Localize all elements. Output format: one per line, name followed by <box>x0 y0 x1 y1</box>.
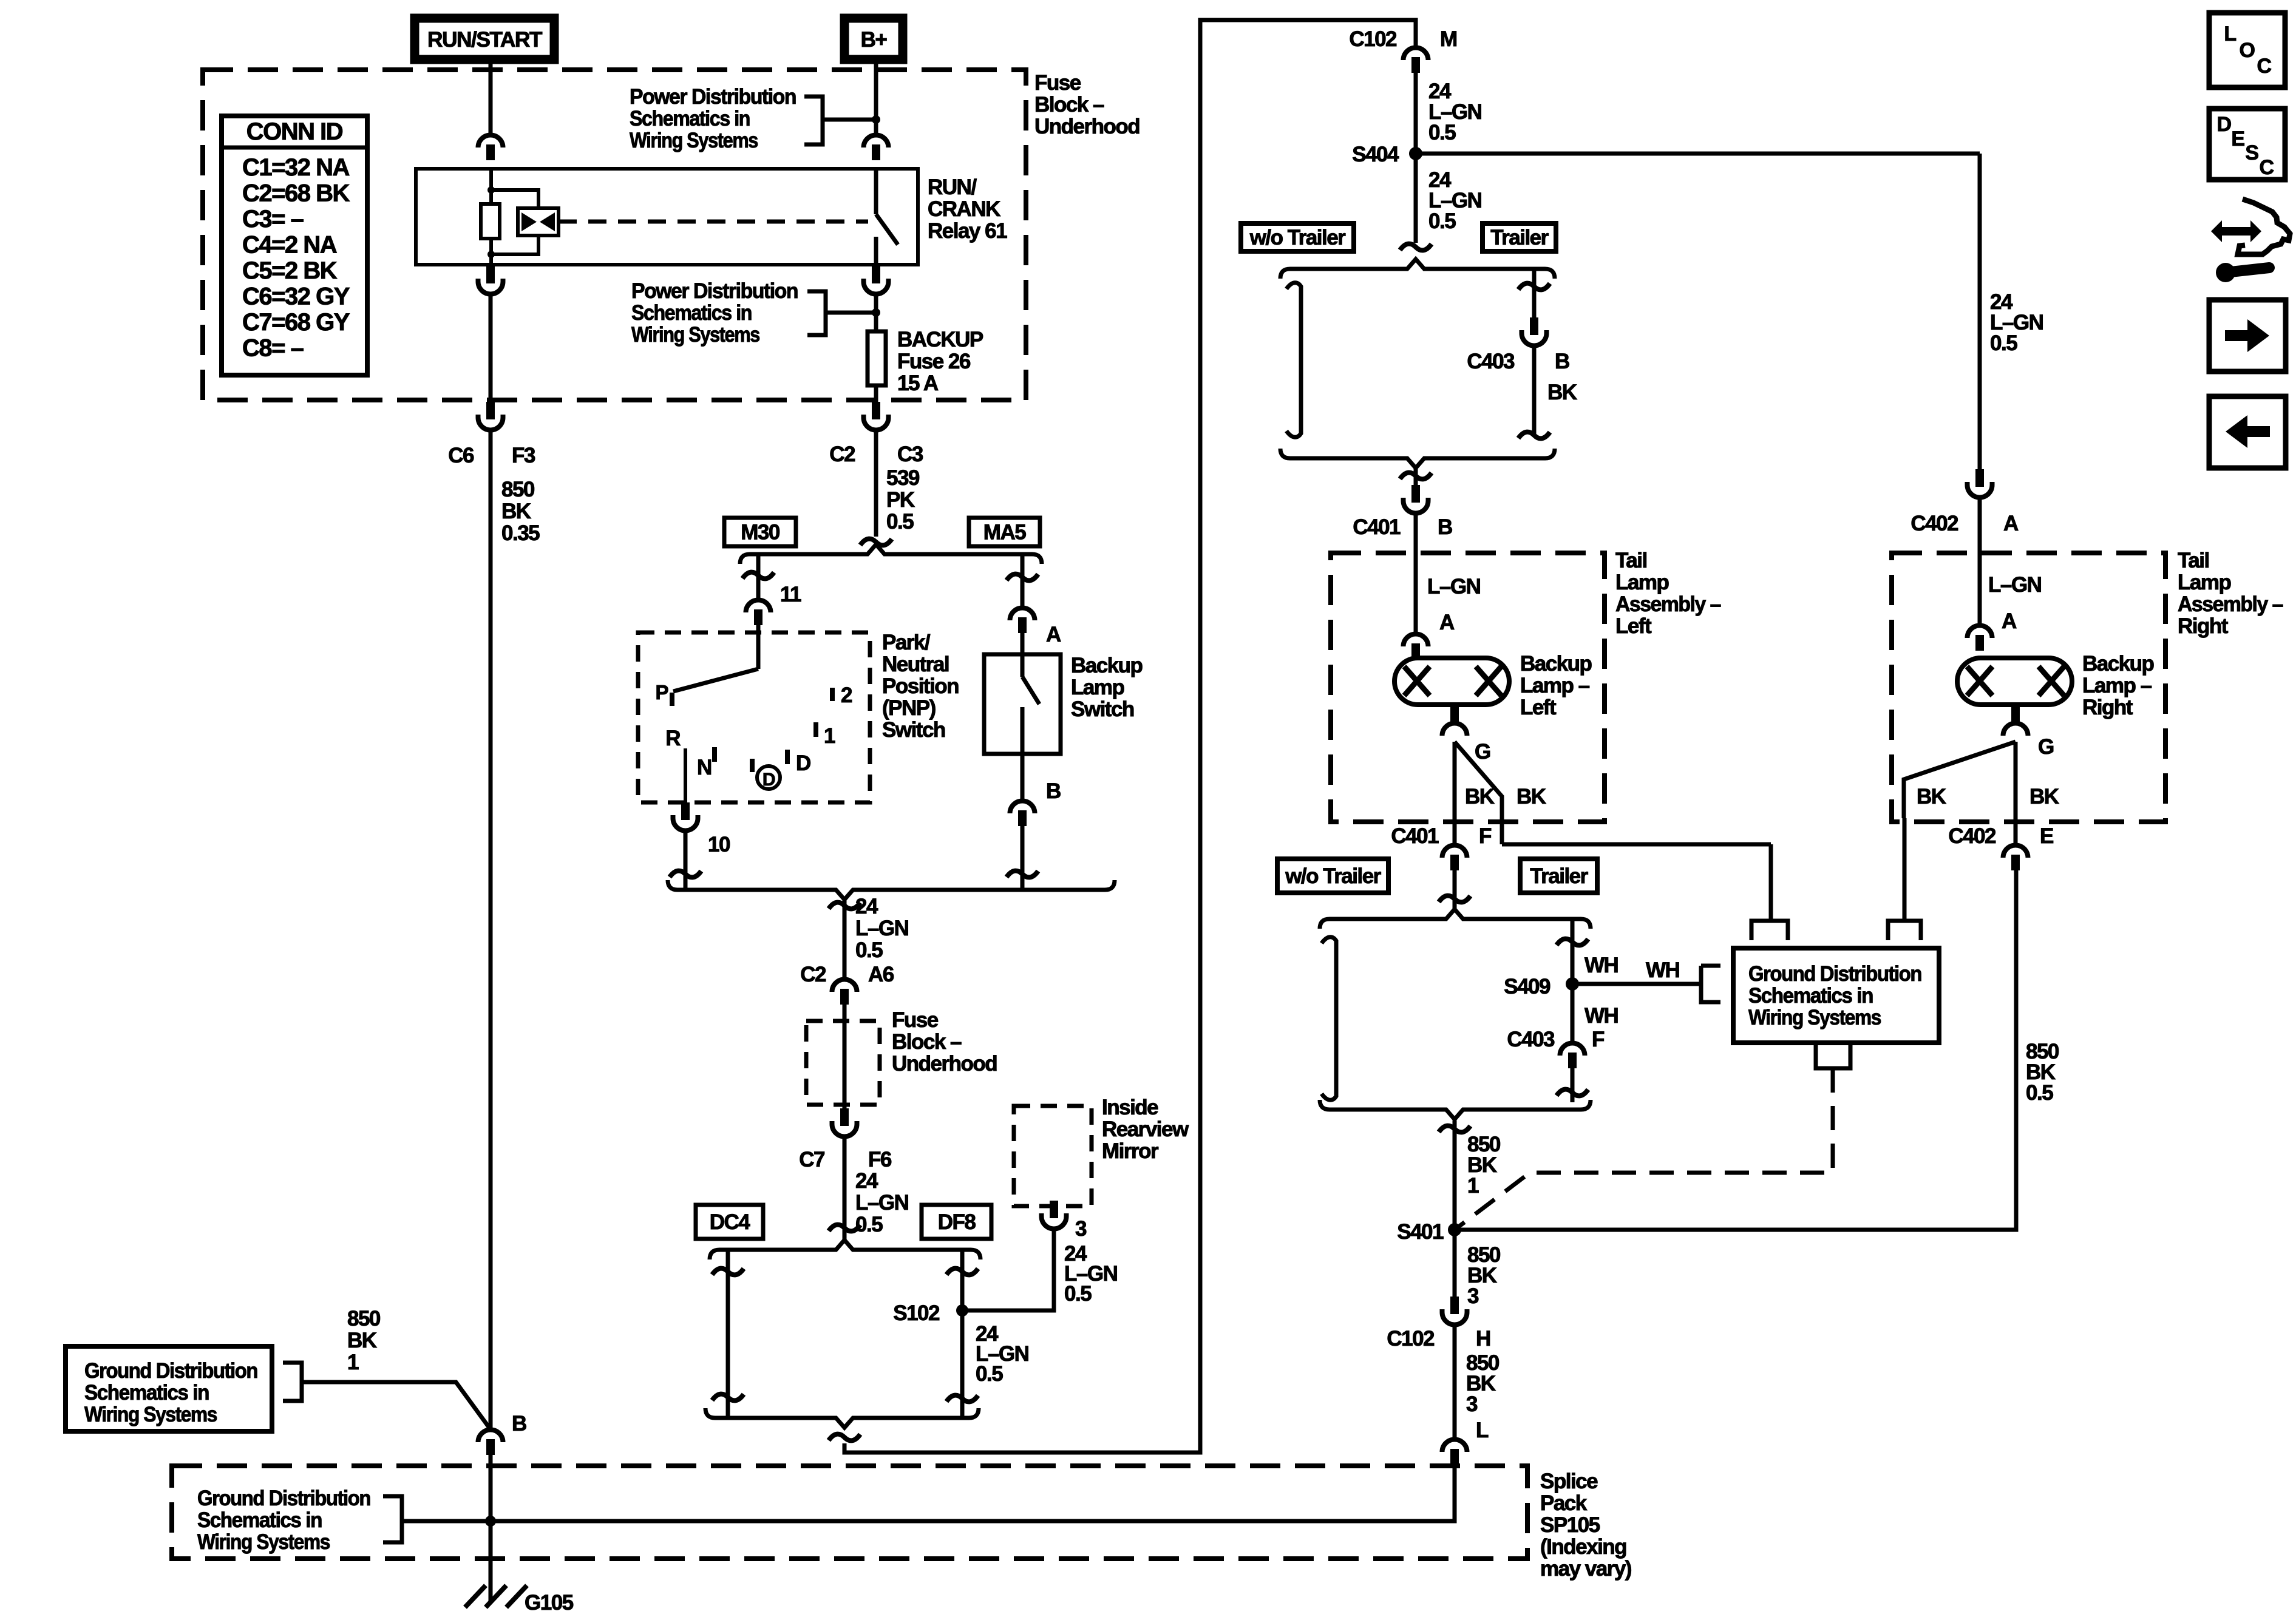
svg-text:Relay 61: Relay 61 <box>928 219 1007 243</box>
svg-text:B+: B+ <box>861 28 888 52</box>
relay coil element <box>481 204 500 239</box>
svg-text:L–GN: L–GN <box>1988 573 2041 597</box>
svg-text:C2: C2 <box>800 963 826 986</box>
svg-text:0.5: 0.5 <box>976 1362 1003 1386</box>
svg-text:C3= –: C3= – <box>242 206 304 232</box>
svg-text:0.35: 0.35 <box>501 521 540 545</box>
svg-text:Tail: Tail <box>2178 549 2209 572</box>
svg-text:Fuse: Fuse <box>892 1008 939 1032</box>
wire right lamp BK to ground box <box>1903 818 1907 921</box>
svg-text:w/o Trailer: w/o Trailer <box>1249 226 1346 249</box>
svg-text:N: N <box>697 756 712 779</box>
svg-text:C402: C402 <box>1948 824 1996 848</box>
svg-text:L–GN: L–GN <box>855 917 908 940</box>
svg-text:C2=68 BK: C2=68 BK <box>242 180 350 207</box>
svg-text:Splice: Splice <box>1540 1470 1598 1493</box>
connector pin 3 inside rearview mirror <box>1050 1201 1058 1218</box>
svg-text:A6: A6 <box>868 963 894 986</box>
backup lamp left bulb <box>1394 658 1509 705</box>
svg-text:Left: Left <box>1615 614 1652 638</box>
wire break below merge <box>829 1434 860 1441</box>
wire callout to B+ rail <box>823 118 876 122</box>
branch MA5 to backup lamp switch <box>1021 554 1025 607</box>
wire S404 to right lamp feed <box>1416 152 1980 156</box>
wire BK diagonal right lamp <box>1904 742 2016 818</box>
svg-text:L: L <box>2224 22 2236 46</box>
svg-text:G105: G105 <box>525 1591 574 1615</box>
svg-text:C4=2 NA: C4=2 NA <box>242 232 337 259</box>
svg-text:S102: S102 <box>893 1301 940 1325</box>
svg-text:may vary): may vary) <box>1540 1557 1631 1581</box>
relay switch contacts <box>874 169 878 214</box>
splice S409 <box>1566 977 1579 991</box>
contact D drive <box>750 759 755 772</box>
connector into fuse block (RUN/START side) <box>478 135 503 147</box>
svg-text:Inside: Inside <box>1102 1096 1158 1119</box>
svg-text:Ground Distribution: Ground Distribution <box>197 1486 370 1510</box>
fork into ground distribution box <box>1701 966 1720 1002</box>
options merge brace trailer lower <box>1320 1100 1591 1119</box>
svg-text:11: 11 <box>780 583 801 606</box>
Backup Lamp Switch box <box>984 654 1061 754</box>
contact 2 <box>830 688 835 701</box>
relay control dashed link <box>559 220 868 224</box>
callout bracket (lower) <box>807 291 826 335</box>
backup lamp right bulb <box>1957 658 2072 705</box>
svg-text:Block –: Block – <box>1034 93 1104 117</box>
connector out of relay (right) <box>872 266 880 283</box>
svg-text:850: 850 <box>347 1307 381 1331</box>
wire 539 PK down <box>874 432 878 537</box>
svg-text:Lamp: Lamp <box>1615 571 1668 594</box>
connector pin 10 PNP switch <box>681 802 690 820</box>
Fuse Block - Underhood dashed outline <box>203 70 1026 400</box>
connector out of relay (left) <box>486 266 495 283</box>
PNP switch dashed box <box>638 632 870 802</box>
svg-text:DF8: DF8 <box>938 1210 976 1234</box>
wire 24 L-GN to S404 <box>1414 73 1418 154</box>
svg-text:G: G <box>1475 740 1490 764</box>
connector pin 11 PNP switch <box>746 600 771 612</box>
contact D tick <box>785 750 790 764</box>
svg-text:D: D <box>796 751 810 775</box>
w/o trailer empty branch <box>1286 283 1301 438</box>
wire S401 to C402/E 850 BK 0.5 <box>1455 878 2016 1230</box>
connector C2/A6 fuse block <box>832 979 857 992</box>
svg-text:w/o Trailer: w/o Trailer <box>1285 864 1381 888</box>
svg-text:BK: BK <box>1547 381 1577 404</box>
Splice Pack SP105 dashed box <box>172 1466 1527 1559</box>
tag M30 <box>724 518 796 546</box>
svg-text:B: B <box>1046 779 1061 803</box>
svg-text:M30: M30 <box>741 521 780 544</box>
svg-text:Left: Left <box>1520 696 1557 719</box>
tag DF8 <box>922 1205 991 1239</box>
svg-text:S404: S404 <box>1352 143 1399 166</box>
wire BK to C402/E <box>2014 742 2018 844</box>
svg-text:Ground Distribution: Ground Distribution <box>1748 962 1921 986</box>
svg-text:Trailer: Trailer <box>1530 864 1588 888</box>
splice S102 <box>956 1304 968 1317</box>
svg-text:1: 1 <box>347 1351 359 1374</box>
connector into fuse block (B+ side) <box>864 135 889 147</box>
options split brace M30/MA5 <box>740 544 1042 564</box>
svg-text:M: M <box>1440 27 1457 51</box>
wire S102 to inside rearview mirror <box>962 1230 1054 1310</box>
svg-text:CONN ID: CONN ID <box>246 118 343 145</box>
relay RUN/CRANK Relay 61 box <box>416 169 918 265</box>
svg-text:539: 539 <box>886 466 920 490</box>
svg-text:P: P <box>655 681 668 703</box>
svg-text:Block –: Block – <box>892 1030 962 1054</box>
svg-text:0.5: 0.5 <box>1428 209 1456 233</box>
svg-text:0.5: 0.5 <box>1428 121 1456 144</box>
branch M30 to PNP switch <box>756 554 761 599</box>
wire pin 10 to merge <box>684 833 688 890</box>
svg-text:BK: BK <box>2029 785 2059 808</box>
svg-text:Wiring Systems: Wiring Systems <box>84 1403 217 1426</box>
junction B+ callout <box>872 115 880 124</box>
ground G105 <box>465 1585 527 1607</box>
connector C102/M <box>1404 47 1428 60</box>
svg-text:O: O <box>2240 39 2255 62</box>
svg-text:0.5: 0.5 <box>855 938 883 962</box>
icon DESC <box>2209 109 2285 180</box>
branch DC4 wire <box>726 1250 730 1418</box>
RUN/START power tag <box>415 18 554 59</box>
connector C102/H <box>1450 1297 1459 1314</box>
svg-text:MA5: MA5 <box>983 521 1026 544</box>
svg-text:C: C <box>2259 156 2274 179</box>
svg-text:(Indexing: (Indexing <box>1540 1535 1626 1559</box>
svg-text:C102: C102 <box>1387 1327 1435 1351</box>
wire to splice pack <box>1453 1327 1457 1439</box>
svg-text:Lamp –: Lamp – <box>2082 674 2152 697</box>
wire splice pack bus <box>402 1465 1455 1521</box>
svg-text:BK: BK <box>501 500 531 523</box>
branch DF8 wire <box>960 1250 965 1418</box>
svg-text:Underhood: Underhood <box>1034 115 1140 138</box>
svg-text:L: L <box>1476 1419 1489 1442</box>
svg-text:Switch: Switch <box>882 718 945 742</box>
svg-text:Wiring Systems: Wiring Systems <box>197 1530 330 1554</box>
svg-text:B: B <box>1555 350 1569 373</box>
svg-text:0.5: 0.5 <box>1990 331 2017 355</box>
wrench <box>2230 268 2269 272</box>
tag w/o Trailer (upper) <box>1241 223 1354 251</box>
bulb ground pin right <box>2011 705 2020 724</box>
relay suppression branch wire <box>491 190 538 208</box>
trailer branch with C403/B <box>1532 269 1537 317</box>
svg-text:24: 24 <box>855 1169 878 1193</box>
connector pin A backup lamp switch <box>1010 608 1035 620</box>
svg-text:Tail: Tail <box>1615 549 1647 572</box>
svg-text:Schematics in: Schematics in <box>631 301 752 325</box>
svg-text:C403: C403 <box>1507 1028 1555 1051</box>
wire 850 BK to S401 <box>1453 1120 1457 1230</box>
svg-text:C102: C102 <box>1349 27 1397 51</box>
wire 850 BK down left side <box>489 432 493 1429</box>
wire pin 11 into PNP <box>756 625 761 669</box>
svg-text:BK: BK <box>347 1329 377 1352</box>
svg-text:A: A <box>1046 623 1061 646</box>
svg-text:F: F <box>1479 824 1492 848</box>
svg-text:Fuse: Fuse <box>1034 71 1081 95</box>
svg-text:(PNP): (PNP) <box>882 696 936 720</box>
w/o trailer empty branch lower <box>1322 937 1336 1100</box>
connector A backup lamp left <box>1404 634 1428 647</box>
svg-text:3: 3 <box>1075 1217 1087 1241</box>
wire WH to ground callout <box>1572 982 1701 986</box>
wire riser from DC4/DF8 merge to C102/M <box>844 20 1416 1453</box>
fork left into ground box <box>1751 921 1788 940</box>
Fuse Block - Underhood small dashed box <box>806 1021 880 1105</box>
wire S404 down to trailer split <box>1414 154 1418 243</box>
svg-text:3: 3 <box>1466 1392 1478 1416</box>
svg-text:C7=68 GY: C7=68 GY <box>242 309 350 336</box>
relay coil branch <box>489 169 493 204</box>
wire merge to C401/B <box>1414 468 1418 485</box>
connector G backup lamp left <box>1442 724 1467 736</box>
svg-text:SP105: SP105 <box>1540 1513 1600 1537</box>
svg-text:RUN/START: RUN/START <box>427 28 542 52</box>
svg-text:15 A: 15 A <box>897 371 939 395</box>
Ground Distribution Schematics box (right) <box>1733 948 1939 1043</box>
svg-text:Underhood: Underhood <box>892 1052 997 1076</box>
wire relay to C6/F3 <box>489 296 493 402</box>
splice S404 <box>1409 147 1422 160</box>
svg-text:Power Distribution: Power Distribution <box>630 85 796 109</box>
svg-text:E: E <box>2231 127 2244 151</box>
svg-text:WH: WH <box>1646 958 1679 982</box>
Inside Rearview Mirror dashed box <box>1014 1106 1092 1206</box>
connector C403/B <box>1530 317 1538 335</box>
wire to trailer split lower <box>1453 870 1457 909</box>
connector C6/F3 at fuse block edge <box>486 402 495 419</box>
svg-text:C402: C402 <box>1911 512 1958 535</box>
svg-text:Position: Position <box>882 674 959 698</box>
wire down right side to C402/A <box>1978 154 1982 469</box>
wire BK ground run to right <box>1502 842 1771 847</box>
svg-text:Wiring Systems: Wiring Systems <box>1748 1006 1881 1029</box>
svg-text:Switch: Switch <box>1071 697 1134 721</box>
splice S401 <box>1448 1223 1461 1236</box>
svg-text:C3: C3 <box>897 442 923 466</box>
svg-text:L–GN: L–GN <box>855 1191 908 1215</box>
svg-text:Fuse 26: Fuse 26 <box>897 350 971 373</box>
tag w/o Trailer (lower) <box>1277 859 1388 893</box>
options split brace trailer lower <box>1320 909 1591 929</box>
svg-text:S409: S409 <box>1504 975 1550 998</box>
svg-text:2: 2 <box>841 683 852 707</box>
wire BK to C401/F <box>1453 742 1457 844</box>
wire callout to fuse rail <box>826 311 876 315</box>
svg-text:F3: F3 <box>512 444 535 467</box>
svg-text:Lamp: Lamp <box>2178 571 2230 594</box>
fork below ground box <box>1816 1043 1850 1068</box>
wire through fuse block <box>843 1005 847 1108</box>
svg-text:E: E <box>2040 824 2053 848</box>
svg-text:Wiring Systems: Wiring Systems <box>631 323 760 347</box>
svg-text:Power Distribution: Power Distribution <box>631 279 798 303</box>
wire S401 down to C102/H <box>1453 1230 1457 1297</box>
svg-text:1: 1 <box>1467 1174 1479 1198</box>
connector C402/E <box>2003 846 2028 858</box>
wire RUN/START to relay <box>489 59 493 134</box>
wire to G105 ground <box>489 1455 493 1602</box>
icon arrow right <box>2209 300 2286 371</box>
connector C401/F <box>1442 846 1467 858</box>
svg-text:C7: C7 <box>799 1148 824 1171</box>
svg-text:3: 3 <box>1467 1284 1479 1308</box>
wire ground callout to B connector <box>302 1382 491 1429</box>
svg-text:Assembly –: Assembly – <box>2178 592 2283 616</box>
svg-text:WH: WH <box>1584 1004 1618 1028</box>
svg-text:A: A <box>2002 609 2017 633</box>
svg-text:G: G <box>2038 735 2054 759</box>
options merge brace trailer upper <box>1280 449 1555 468</box>
icon vehicle hotspot with wrench <box>2238 199 2290 254</box>
svg-text:Mirror: Mirror <box>1102 1139 1159 1163</box>
contact P <box>670 693 674 706</box>
svg-text:C403: C403 <box>1467 350 1515 373</box>
svg-text:C2: C2 <box>829 442 855 466</box>
connector C401/B <box>1411 485 1420 503</box>
svg-text:Schematics in: Schematics in <box>1748 984 1873 1008</box>
svg-text:Assembly –: Assembly – <box>1615 592 1721 616</box>
backup lamp switch contacts <box>1021 654 1025 677</box>
svg-text:L–GN: L–GN <box>1427 575 1480 598</box>
options split brace trailer upper <box>1280 259 1555 279</box>
svg-text:1: 1 <box>824 724 835 748</box>
wire L-GN into left tail lamp <box>1414 515 1418 633</box>
Ground Distribution Schematics box (left) <box>66 1346 272 1431</box>
svg-text:Pack: Pack <box>1540 1491 1588 1515</box>
svg-text:C6: C6 <box>448 444 474 467</box>
svg-text:10: 10 <box>708 833 730 856</box>
callout bracket 850 BK 1 <box>283 1363 302 1401</box>
callout bracket splice box <box>383 1496 402 1542</box>
options merge brace below PNP <box>668 880 1115 900</box>
svg-text:D: D <box>2216 113 2231 136</box>
svg-text:DC4: DC4 <box>710 1210 751 1234</box>
svg-text:F: F <box>1592 1028 1605 1051</box>
svg-text:Schematics in: Schematics in <box>197 1508 322 1532</box>
relay suppression diode box <box>518 208 559 236</box>
svg-text:C401: C401 <box>1391 824 1439 848</box>
svg-text:B: B <box>512 1412 526 1436</box>
connector A backup lamp right <box>1968 626 1992 639</box>
wire break below merge <box>829 903 860 909</box>
svg-text:BACKUP: BACKUP <box>897 328 983 351</box>
contact N <box>712 747 717 762</box>
svg-text:Backup: Backup <box>1520 652 1592 676</box>
connector B ground rail <box>478 1430 503 1443</box>
callout bracket (upper) <box>804 97 823 144</box>
fuse BACKUP Fuse 26 15A element <box>868 331 886 385</box>
wire B+ to relay <box>874 59 878 134</box>
svg-text:F6: F6 <box>868 1148 892 1171</box>
dashed ground link to S401 <box>1455 1068 1833 1230</box>
contact R wire to pin 10 <box>684 748 687 802</box>
B+ power tag <box>844 18 903 59</box>
tag Trailer (lower) <box>1520 859 1597 893</box>
svg-text:Schematics in: Schematics in <box>84 1381 209 1405</box>
options merge brace below DC4/DF8 <box>705 1408 979 1428</box>
connector G backup lamp right <box>2003 724 2028 736</box>
options split brace DC4/DF8 <box>710 1240 980 1259</box>
svg-text:CRANK: CRANK <box>928 197 1000 221</box>
svg-text:0.5: 0.5 <box>886 510 914 534</box>
tag Trailer (upper) <box>1483 223 1556 251</box>
svg-text:C5=2 BK: C5=2 BK <box>242 257 338 284</box>
contact 1 <box>813 722 818 737</box>
wire break above merge <box>1007 871 1038 878</box>
tag DC4 <box>696 1205 763 1239</box>
tag MA5 <box>969 518 1040 546</box>
svg-text:R: R <box>665 727 681 750</box>
icon LOC <box>2209 13 2285 87</box>
svg-text:Trailer: Trailer <box>1490 226 1549 249</box>
wire switch to pin B <box>1021 754 1025 800</box>
svg-text:S401: S401 <box>1397 1220 1444 1244</box>
bulb ground pin left <box>1450 705 1459 724</box>
connector C2/C3 at fuse block edge <box>872 402 880 419</box>
svg-text:A: A <box>2003 512 2019 535</box>
svg-text:S: S <box>2245 141 2258 164</box>
svg-text:BK: BK <box>1517 785 1546 808</box>
connector L splice pack <box>1442 1440 1467 1453</box>
svg-text:H: H <box>1476 1327 1490 1351</box>
svg-text:Park/: Park/ <box>882 631 931 654</box>
svg-text:A: A <box>1439 611 1455 634</box>
svg-text:0.5: 0.5 <box>2026 1081 2053 1105</box>
svg-text:Right: Right <box>2178 614 2229 638</box>
svg-text:Neutral: Neutral <box>882 653 949 676</box>
wire L-GN into right tail lamp <box>1978 500 1982 625</box>
Tail Lamp Assembly - Right dashed box <box>1892 553 2165 822</box>
connector C402/A <box>1975 469 1984 487</box>
svg-text:Lamp –: Lamp – <box>1520 674 1590 697</box>
wire down to DC4/DF8 split <box>843 1139 847 1242</box>
svg-text:B: B <box>1438 515 1452 539</box>
fork right into ground box <box>1888 921 1921 940</box>
svg-text:C401: C401 <box>1353 515 1401 539</box>
wire break above M30/MA5 split <box>860 539 892 546</box>
svg-text:C1=32 NA: C1=32 NA <box>242 154 349 181</box>
wire BK diagonal to ground run <box>1455 742 1502 844</box>
svg-text:850: 850 <box>501 478 535 501</box>
wire 24 L-GN down <box>843 900 847 978</box>
icon arrow left <box>2209 396 2286 468</box>
svg-text:C6=32 GY: C6=32 GY <box>242 283 350 310</box>
connector C403/F <box>1560 1043 1585 1056</box>
svg-text:Rearview: Rearview <box>1102 1117 1189 1141</box>
svg-text:Right: Right <box>2082 696 2133 719</box>
wire BK down to ground box <box>1769 844 1773 921</box>
svg-text:PK: PK <box>886 488 915 512</box>
trailer branch with S409/C403 <box>1571 919 1575 1042</box>
svg-text:C8= –: C8= – <box>242 335 304 362</box>
wire fuse to C2/C3 <box>874 385 878 402</box>
junction splice bus / G105 rail <box>485 1516 496 1527</box>
svg-text:Ground Distribution: Ground Distribution <box>84 1359 257 1383</box>
svg-text:0.5: 0.5 <box>1064 1282 1092 1306</box>
svg-text:WH: WH <box>1584 954 1618 977</box>
Tail Lamp Assembly - Left dashed box <box>1331 553 1605 822</box>
contact D circled <box>757 766 780 789</box>
svg-text:Schematics in: Schematics in <box>630 107 750 131</box>
